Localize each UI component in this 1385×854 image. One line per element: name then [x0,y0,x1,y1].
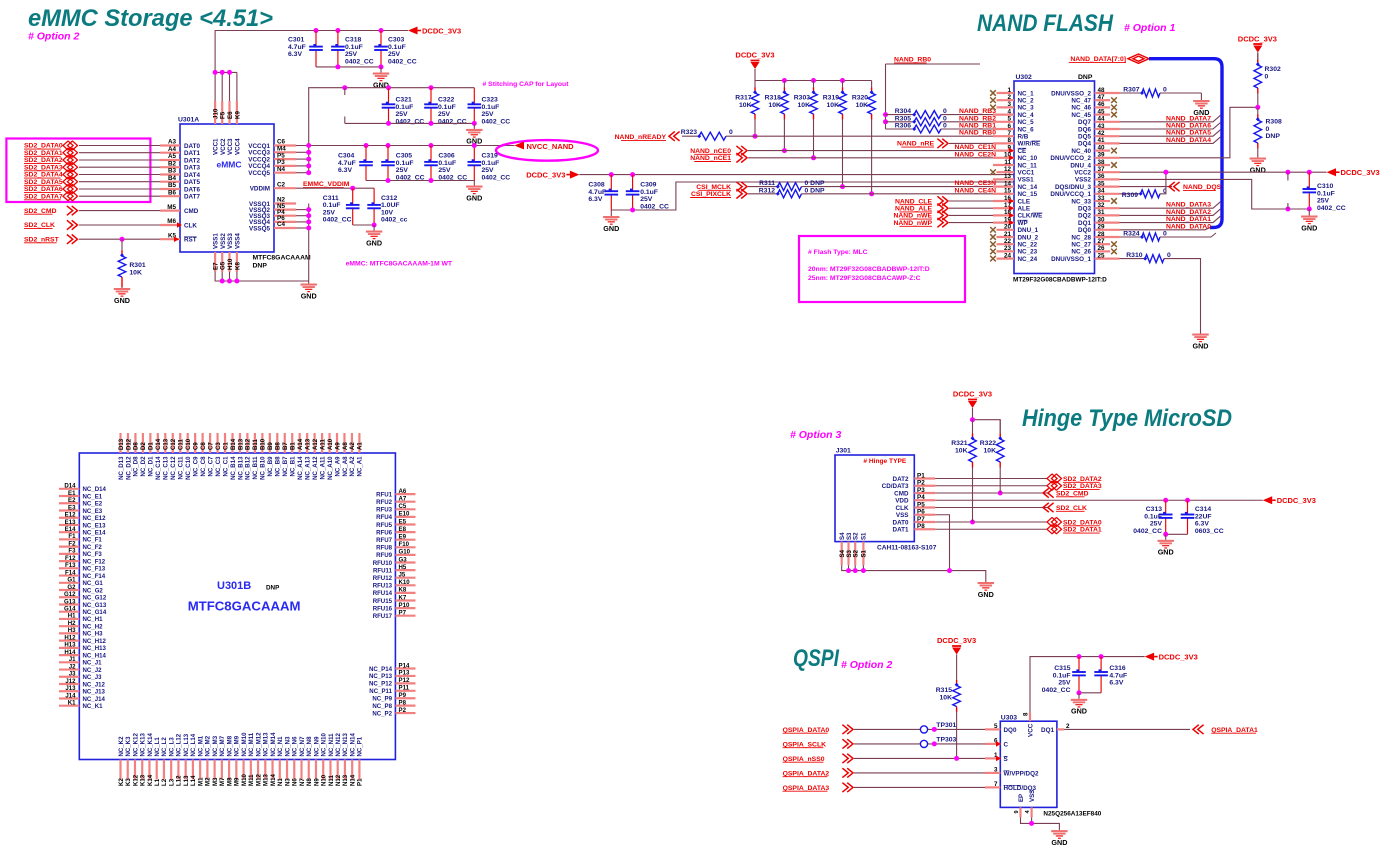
wire NAND_DATA4 [1120,137,1221,144]
svg-text:TP301: TP301 [936,722,956,729]
svg-text:M9: M9 [234,777,241,786]
svg-text:SD2_DATA7: SD2_DATA7 [24,193,63,200]
svg-text:S2: S2 [853,532,860,540]
svg-text:NC_K14: NC_K14 [147,733,154,757]
U301B pin H1 NC_H1 [59,618,79,620]
svg-text:SD2_DATA5: SD2_DATA5 [24,179,63,186]
svg-text:L14: L14 [190,775,197,786]
svg-text:DNU/VSSO_1: DNU/VSSO_1 [1051,256,1091,263]
wire VSSQ P4 [296,215,309,217]
svg-text:0: 0 [729,129,733,136]
wire R324 to bus [1160,233,1216,237]
svg-text:NC_P13: NC_P13 [369,673,393,680]
svg-text:NC_15: NC_15 [1018,191,1038,198]
U302 pin 48 DNU/VSSO_2 [1095,92,1120,94]
U303 pin 7 HOLD/DQ3 [985,786,1000,788]
U301B pin P2 NC_P2 [395,712,415,714]
U302 pin 17 ALE [993,207,1014,209]
svg-text:NC_E13: NC_E13 [83,522,107,529]
svg-text:0402_CC: 0402_CC [482,174,511,181]
svg-text:H10: H10 [227,258,234,270]
svg-text:37: 37 [1098,166,1106,173]
junction VSS 236.9 [234,279,239,284]
svg-text:D12: D12 [125,438,132,450]
wire VSS2 rail [1120,179,1310,209]
U301B pin G3 RFU10 [395,561,415,563]
svg-text:A8: A8 [342,442,349,450]
svg-text:R309: R309 [1122,192,1138,199]
U302 pin 38 DNU_4 [1095,164,1111,166]
U301B pin J14 NC_J14 [59,697,79,699]
svg-text:J1: J1 [69,656,76,663]
svg-text:GND: GND [1051,838,1067,847]
U301B pin B13 NC_B13 [239,433,241,453]
svg-text:40: 40 [1098,144,1106,151]
U302 pin 26 NC_26 [1095,250,1111,252]
svg-text:NC_10: NC_10 [1018,155,1038,162]
svg-text:M11: M11 [248,774,255,786]
svg-text:48: 48 [1098,87,1106,94]
svg-text:DNU_2: DNU_2 [1018,234,1039,241]
svg-text:S1: S1 [861,532,868,540]
svg-text:46: 46 [1098,101,1106,108]
capacitor C321 [388,88,390,105]
wire RB0 vertical [886,63,981,65]
svg-text:DAT7: DAT7 [184,194,200,201]
junction VCCQ M4 [306,150,311,155]
svg-text:M3: M3 [212,777,219,786]
U301A pin VSS2 bottom [221,252,223,272]
wire C308 bottom bus [611,182,1014,210]
svg-text:NC_C7: NC_C7 [207,456,214,477]
svg-text:DNU_1: DNU_1 [1018,227,1039,234]
svg-text:E10: E10 [399,511,410,518]
capacitor C311 [352,188,354,205]
junction VSS 229.5 [227,279,232,284]
svg-text:R310: R310 [1126,252,1142,259]
svg-text:NC_L13: NC_L13 [183,733,190,756]
U301A pin C4 VSSQ5 [274,227,296,229]
svg-text:25V: 25V [438,111,451,118]
wire NAND_DATA2 [1120,209,1221,216]
wire R309 up [1160,172,1166,194]
wire VSS hinge [935,515,949,571]
svg-text:TP303: TP303 [936,737,956,744]
svg-text:6: 6 [1007,123,1011,130]
svg-text:0.1uF: 0.1uF [396,104,414,111]
U301A pin N4 VCCQ5 [274,172,296,174]
svg-text:DQ4: DQ4 [1078,141,1091,148]
svg-text:A6: A6 [399,488,407,495]
svg-text:NC_B12: NC_B12 [245,456,252,480]
svg-text:29: 29 [1098,224,1106,231]
U302 pin 31 DQ2 [1095,214,1120,216]
svg-text:0.1uF: 0.1uF [323,202,341,209]
wire NAND_DATA1 [1120,216,1221,223]
svg-text:NAND_DATA6: NAND_DATA6 [1166,123,1211,130]
capacitor C322 [430,88,432,105]
U301A pin A4 DAT1 [160,152,180,154]
U301B pin E2 NC_E2 [59,502,79,504]
U301B pin K1 NC_K1 [59,705,79,707]
J301 pin P1 DAT2 [914,477,935,479]
wire hinge mount 848.5 [848,565,850,570]
svg-text:DQ3: DQ3 [1078,206,1091,213]
svg-text:K8: K8 [399,587,407,594]
svg-text:NC_N10: NC_N10 [321,733,328,757]
svg-text:C316: C316 [1109,665,1125,672]
svg-text:P7: P7 [917,516,925,523]
U301B pin N3 NC_N3 [286,760,288,780]
svg-text:0.1uF: 0.1uF [482,160,500,167]
net SD2_CMD hinge [935,492,1048,494]
svg-text:P3: P3 [917,487,925,494]
wire NAND_RB3 [941,114,1014,116]
svg-text:5: 5 [1007,116,1011,123]
ground eMMC VSS [308,281,310,284]
svg-text:H5: H5 [399,564,407,571]
svg-text:DAT0: DAT0 [893,519,909,526]
U301B pin G14 NC_G14 [59,611,79,613]
svg-text:N25Q256A13EF840: N25Q256A13EF840 [1043,811,1101,818]
svg-text:7: 7 [994,781,998,788]
svg-text:NC_H13: NC_H13 [83,645,107,652]
junction rail C306 [429,143,434,148]
U301A pin B2 DAT3 [160,166,180,168]
magenta option box SD2 data [6,139,150,203]
junction R309 rail [1163,170,1168,175]
svg-text:M14: M14 [270,774,277,786]
U302 pin 12 VCC1 [997,171,1015,173]
junction rail C304 [364,143,369,148]
svg-text:RFU15: RFU15 [373,598,393,605]
svg-text:CMD: CMD [894,490,909,497]
svg-text:NC_N1: NC_N1 [277,736,284,757]
U301B pin L14 NC_L14 [192,760,194,780]
U301B pin M2 NC_M2 [206,760,208,780]
svg-text:GND: GND [466,193,482,202]
U301A pin VCC4 top [236,101,238,124]
svg-text:R304: R304 [895,108,911,115]
wire NAND_DATA0 [1120,228,1211,230]
svg-text:NC_B7: NC_B7 [282,456,289,477]
svg-text:0.1uF: 0.1uF [388,44,406,51]
U302 pin 16 CLE [993,200,1014,202]
U301B pin A6 RFU1 [395,493,415,495]
svg-text:25V: 25V [640,196,653,203]
svg-text:3: 3 [1007,101,1011,108]
svg-text:25V: 25V [345,51,358,58]
capacitor C316 [1100,657,1102,672]
svg-text:NC_N6: NC_N6 [292,736,299,757]
svg-text:A3: A3 [168,139,177,146]
svg-text:43: 43 [1098,123,1106,130]
net SD2_DATA2 hinge [935,478,1048,480]
svg-text:R307: R307 [1123,87,1139,94]
svg-text:E7: E7 [213,262,220,270]
testpoint TP301 [920,726,927,733]
svg-text:NC_4: NC_4 [1018,112,1035,119]
svg-text:DAT6: DAT6 [184,186,200,193]
svg-text:NAND_DATA4: NAND_DATA4 [1166,137,1211,144]
svg-text:RFU13: RFU13 [373,583,393,590]
svg-text:0402_CC: 0402_CC [388,58,417,65]
svg-text:RFU3: RFU3 [376,507,393,514]
svg-text:R303: R303 [794,95,810,102]
U302 pin 41 DQ4 [1095,142,1120,144]
svg-text:J14: J14 [65,692,76,699]
U301B pin C8 NC_C8 [202,433,204,453]
svg-text:0402_CC: 0402_CC [438,118,467,125]
svg-text:25V: 25V [1317,198,1330,205]
svg-text:G3: G3 [399,556,408,563]
svg-text:NC_M7: NC_M7 [219,735,226,756]
svg-text:M13: M13 [263,774,270,786]
svg-text:N4: N4 [277,166,286,173]
capacitor C323 [473,88,475,105]
svg-text:6.3V: 6.3V [288,51,302,58]
U301B pin B1 NC_B1 [291,433,293,453]
wire nRE [949,142,1014,144]
U301A pin VCC1 top [214,101,216,124]
svg-text:R312: R312 [759,187,775,194]
svg-text:NAND_DATA2: NAND_DATA2 [1166,209,1211,216]
ground C313 [1165,534,1167,540]
U301B pin H13 NC_H13 [59,647,79,649]
svg-text:NC_B13: NC_B13 [237,456,244,480]
svg-text:RFU1: RFU1 [376,491,393,498]
svg-text:6.3V: 6.3V [588,196,602,203]
stub DNP cap bottom [344,117,346,124]
svg-text:NAND_RB1: NAND_RB1 [959,123,996,130]
svg-text:NC_J14: NC_J14 [83,696,106,703]
svg-text:A1: A1 [357,442,364,450]
svg-text:J3: J3 [69,671,76,678]
U301B pin C14 NC_C14 [157,433,159,453]
capacitor C319 [473,146,475,162]
junction RB r305 [883,119,888,124]
svg-text:U301B: U301B [217,580,251,592]
svg-text:13: 13 [1004,173,1012,180]
svg-text:B1: B1 [290,442,297,450]
net SD2_DATA1 hinge [935,528,1048,530]
U302 pin 20 DNU_1 [997,229,1015,231]
junction R302/R308 [1255,105,1260,110]
svg-text:NC_A9: NC_A9 [334,456,341,477]
svg-text:K9: K9 [234,111,241,119]
svg-text:NAND_DQS: NAND_DQS [1183,184,1222,191]
capacitor C310 [1308,172,1310,189]
svg-text:35: 35 [1098,180,1106,187]
svg-text:VDD: VDD [895,498,909,505]
svg-text:eMMC: MTFC8GACAAAM-1M WT: eMMC: MTFC8GACAAAM-1M WT [346,260,453,267]
svg-text:NC_E14: NC_E14 [83,529,107,536]
svg-text:B14: B14 [230,438,237,450]
svg-text:NC_H3: NC_H3 [83,631,104,638]
svg-text:10K: 10K [798,102,811,109]
svg-text:E14: E14 [65,526,76,533]
svg-text:NAND_CE2N: NAND_CE2N [954,151,996,158]
U301B pin A2 NC_A2 [351,433,353,453]
svg-text:R301: R301 [129,262,145,269]
svg-text:NC_23: NC_23 [1018,249,1038,256]
U301A pin B3 DAT4 [160,173,180,175]
svg-text:42: 42 [1098,130,1106,137]
svg-text:NC_G14: NC_G14 [83,609,107,616]
ground below R301 [121,287,123,288]
resistor R319 [842,81,844,89]
J301 pin P8 DAT1 [914,528,935,530]
svg-text:NC_C9: NC_C9 [192,456,199,477]
wire CE4N [802,193,1015,195]
svg-text:NC_N9: NC_N9 [313,736,320,757]
junction R322 CMD [998,491,1003,496]
svg-text:DCDC_3V3: DCDC_3V3 [1159,652,1198,661]
svg-text:A4: A4 [168,146,177,153]
svg-text:B6: B6 [168,189,177,196]
svg-text:DCDC_3V3: DCDC_3V3 [422,26,461,35]
U301B pin J5 RFU12 [395,577,415,579]
svg-text:NC_L1: NC_L1 [154,737,161,757]
svg-text:NC_D1: NC_D1 [148,456,155,477]
svg-text:C314: C314 [1195,506,1211,513]
svg-text:NC_E1: NC_E1 [83,493,103,500]
U301B pin E12 NC_E12 [59,517,79,519]
U301B pin N6 NC_N6 [293,760,295,780]
svg-text:NC_F12: NC_F12 [83,558,106,565]
svg-text:NAND_nWE: NAND_nWE [893,213,932,220]
U301B pin M3 NC_M3 [214,760,216,780]
capacitor C312 [373,188,375,205]
svg-text:VSS3: VSS3 [227,233,234,249]
wire C304 group bottom bus [366,180,474,182]
svg-text:7: 7 [1007,130,1011,137]
J301 pin S2 [854,542,856,566]
svg-text:DCDC_3V3: DCDC_3V3 [1277,496,1316,505]
wire qspi gnd [1021,817,1060,829]
NAND U302 body [1014,81,1095,274]
junction VCCQ N4 [306,170,311,175]
svg-text:0: 0 [1265,73,1269,80]
svg-text:NC_2: NC_2 [1018,98,1035,105]
junction C313 bottom [1163,532,1168,537]
svg-text:DQ2: DQ2 [1078,213,1091,220]
svg-text:NC_6: NC_6 [1018,126,1035,133]
svg-text:F13: F13 [65,562,76,569]
svg-text:A14: A14 [297,438,304,450]
svg-text:NC_40: NC_40 [1071,148,1091,155]
J301 pin P4 VDD [914,499,935,501]
svg-text:VCC2: VCC2 [1074,170,1091,177]
svg-text:C318: C318 [345,37,361,44]
stub dnp top right [1287,172,1289,180]
U302 pin 14 NC_14 [993,186,1014,188]
svg-text:WP: WP [1018,220,1028,227]
svg-text:M6: M6 [167,218,176,225]
U301B pin B7 NC_B7 [284,433,286,453]
svg-text:1: 1 [1007,87,1011,94]
U302 pin 44 DQ7 [1095,121,1120,123]
wire vss drop [1031,817,1033,823]
svg-text:25V: 25V [396,167,409,174]
svg-text:25V: 25V [482,111,495,118]
svg-text:M2: M2 [205,777,212,786]
svg-text:GND: GND [114,296,130,305]
U301B pin C3 NC_C3 [216,433,218,453]
svg-text:NC_A2: NC_A2 [349,456,356,477]
capacitor C313 [1165,500,1167,514]
svg-text:NC_A14: NC_A14 [297,456,304,480]
U301B pin M12 NC_M12 [257,760,259,780]
wire NAND_RB1 [941,128,1014,130]
svg-text:L13: L13 [183,775,190,786]
svg-text:E6: E6 [227,111,234,119]
U302 pin 25 DNU/VSSO_1 [1095,258,1120,260]
svg-text:P2: P2 [399,707,407,714]
svg-text:4.7uF: 4.7uF [338,160,356,167]
wire VSS pin 236.9 [236,272,238,281]
U302 pin 28 NC_28 [1095,236,1120,238]
svg-text:N6: N6 [292,778,299,786]
wire C301 group bottom bus [316,66,381,68]
svg-text:23: 23 [1004,245,1012,252]
svg-text:GND: GND [366,238,382,247]
junction hinge mount 855.2 [853,568,858,573]
resistor R309 [1120,193,1141,195]
U301A pin B5 DAT6 [160,188,180,190]
junction C306 bottom [429,178,434,183]
U301B pin N12 NC_N12 [337,760,339,780]
svg-text:A5: A5 [168,153,177,160]
svg-text:RFU14: RFU14 [373,590,393,597]
svg-text:NC_C8: NC_C8 [200,456,207,477]
resistor R321 [972,420,974,434]
junction VSS 222.2 [220,279,225,284]
svg-text:33: 33 [1098,195,1106,202]
svg-text:DNU/VCCQ_1: DNU/VCCQ_1 [1050,191,1091,198]
ground R308 [1257,156,1259,158]
svg-text:DNP: DNP [253,263,268,270]
svg-text:0402_CC: 0402_CC [640,203,669,210]
svg-text:NC_P12: NC_P12 [369,681,393,688]
U302 pin 3 NC_3 [997,106,1015,108]
U301B pin G12 NC_G12 [59,596,79,598]
junction qspi vss [1029,821,1034,826]
U301A pin N5 VSSQ2 [274,209,296,211]
svg-text:R324: R324 [1123,231,1139,238]
resistor R311 [748,186,778,188]
U302 pin 24 NC_24 [997,258,1015,260]
svg-text:M5: M5 [167,204,176,211]
svg-text:K2: K2 [118,778,125,786]
svg-text:0.1uF: 0.1uF [438,104,456,111]
junction rail C318 [335,28,340,33]
J301 pin S1 [862,542,864,566]
capacitor C315 [1078,657,1080,672]
junction VSSQ P6 [306,219,311,224]
svg-text:NC_N11: NC_N11 [328,733,335,757]
junction VCCQ P3 [306,163,311,168]
svg-text:NC_11: NC_11 [1018,162,1038,169]
svg-text:DAT2: DAT2 [184,157,200,164]
svg-text:C319: C319 [482,153,498,160]
svg-text:20: 20 [1004,224,1012,231]
svg-text:47: 47 [1098,94,1106,101]
svg-text:NC_B9: NC_B9 [267,456,274,477]
wire DNU/VCCO_2 [1120,107,1258,158]
svg-text:4.7uF: 4.7uF [288,44,306,51]
svg-text:0603_CC: 0603_CC [1195,528,1224,535]
